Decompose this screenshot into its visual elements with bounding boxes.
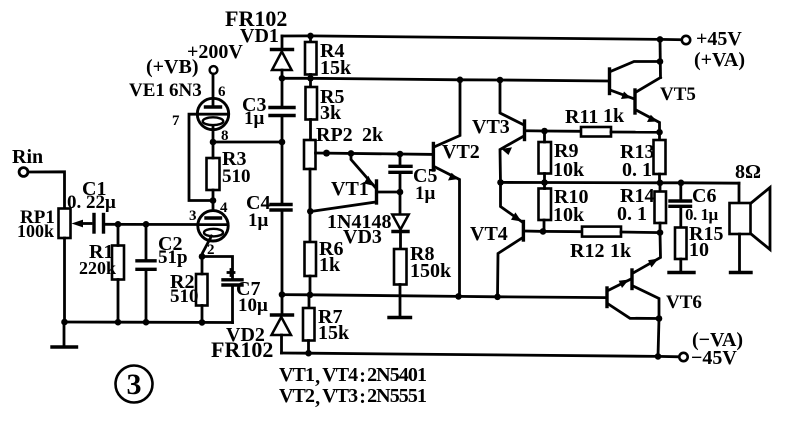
svg-text:VT3: VT3 bbox=[472, 116, 510, 138]
svg-text:3: 3 bbox=[189, 208, 197, 224]
node top rail / VT5 collector bbox=[657, 36, 664, 43]
svg-text:6N3: 6N3 bbox=[169, 80, 202, 101]
capacitor C3 1u bbox=[242, 78, 294, 142]
tube VE1 6N3 upper triode bbox=[129, 80, 229, 144]
diode VD2 FR102 bbox=[211, 295, 293, 362]
svg-text:R11: R11 bbox=[565, 106, 598, 128]
wiper arrow of RP1 bbox=[80, 222, 91, 225]
svg-text:0. 1: 0. 1 bbox=[617, 203, 647, 225]
potentiometer RP1 100k bbox=[17, 207, 91, 241]
wire cathode pin2 to C7 bbox=[199, 253, 233, 278]
resistor R14 0.1 bbox=[617, 183, 666, 236]
collector bbox=[312, 202, 376, 211]
resistor R11 1k bbox=[565, 105, 663, 137]
wire RP1 bottom to ground rail bbox=[63, 238, 66, 322]
VT5 collector column bbox=[659, 39, 662, 77]
node wiper tap bbox=[323, 150, 330, 157]
svg-text:VD1: VD1 bbox=[240, 25, 279, 47]
anode triangle bbox=[272, 52, 292, 71]
svg-text:1μ: 1μ bbox=[248, 210, 269, 231]
cathode ellipse bbox=[204, 229, 223, 237]
node R1 top bbox=[115, 221, 122, 228]
base bar bbox=[523, 121, 526, 140]
svg-text:R12: R12 bbox=[570, 240, 604, 262]
svg-text:220k: 220k bbox=[79, 258, 116, 278]
capacitor C2 51p bbox=[137, 224, 188, 322]
svg-text:VT2: VT2 bbox=[442, 141, 480, 163]
capacitor C5 1u bbox=[390, 154, 437, 204]
svg-text:(+VB): (+VB) bbox=[146, 56, 199, 78]
q1 base bar bbox=[605, 288, 608, 307]
capacitor C7 10u electrolytic bbox=[223, 270, 268, 323]
svg-text:2k: 2k bbox=[362, 124, 384, 146]
power terminal -45V bbox=[679, 329, 743, 369]
svg-text:6: 6 bbox=[218, 84, 226, 100]
svg-text:15k: 15k bbox=[320, 57, 352, 79]
resistor R7 15k bbox=[303, 295, 350, 353]
q1 emitter (arrow toward q2 base) bbox=[612, 91, 634, 99]
node R7 bottom bbox=[305, 350, 312, 357]
capacitor C4 1u bbox=[246, 142, 291, 295]
wire -45V bottom rail bbox=[282, 350, 680, 360]
resistor R3 510 bbox=[207, 142, 251, 211]
svg-text:1μ: 1μ bbox=[244, 108, 265, 129]
svg-text:1k: 1k bbox=[610, 240, 632, 262]
node pin2 / R2 / C7 bbox=[199, 253, 206, 260]
resistor R9 10k bbox=[539, 131, 586, 183]
base bar bbox=[432, 144, 435, 171]
resistor R10 10k bbox=[539, 183, 589, 232]
resistor R2 510 bbox=[170, 257, 208, 323]
node VT4 base / R10 bottom / R12 bbox=[540, 228, 547, 235]
svg-text:VD3: VD3 bbox=[343, 226, 382, 248]
wire RP2 wiper line to VT2 base bbox=[316, 150, 434, 158]
node VT6 collectors bbox=[656, 315, 663, 322]
svg-text:VT5: VT5 bbox=[660, 84, 696, 105]
base lead bbox=[526, 129, 545, 132]
svg-text:VT2,VT3:2N5551: VT2,VT3:2N5551 bbox=[279, 385, 426, 409]
resistor R13 0.1 bbox=[620, 132, 666, 183]
node R11 right / R13 top / VT5 emitter bbox=[656, 129, 663, 136]
anode triangle bbox=[272, 317, 292, 335]
node C5 top bbox=[397, 151, 404, 158]
svg-text:0. 1μ: 0. 1μ bbox=[685, 205, 719, 224]
node R9/R10 junction bbox=[541, 179, 548, 186]
anode bar (pin 6) bbox=[206, 105, 221, 108]
node VT6 collector / rail bbox=[655, 353, 662, 360]
svg-text:15k: 15k bbox=[318, 322, 350, 344]
node pin8 / R3 top bbox=[210, 139, 217, 146]
q1 collector bbox=[612, 62, 661, 72]
power terminal +200V (+VB) bbox=[146, 41, 243, 78]
base bar bbox=[522, 222, 525, 241]
q1 emitter (arrow toward q2 base) bbox=[609, 279, 631, 290]
svg-text:100k: 100k bbox=[17, 221, 54, 241]
node R9 top bbox=[541, 128, 548, 135]
wire VT3 base line y~131 bbox=[541, 128, 581, 135]
resistor R6 1k bbox=[305, 238, 344, 295]
node R13/R14 junction bbox=[657, 180, 664, 187]
transistor VT3 2N5551 bbox=[472, 80, 545, 182]
ground (speaker) bbox=[731, 271, 752, 274]
svg-text:1k: 1k bbox=[603, 105, 625, 127]
q2 collector bbox=[634, 287, 659, 319]
node VT4 collector bbox=[494, 294, 501, 301]
svg-text:VT4: VT4 bbox=[470, 223, 508, 245]
wire C1 to tube grid pin3 bbox=[105, 221, 198, 228]
node VT2 collector bbox=[457, 77, 464, 84]
wire output/emitter rail y~183 bbox=[497, 179, 739, 186]
figure number circled 3 bbox=[116, 366, 153, 403]
svg-text:10k: 10k bbox=[553, 204, 585, 226]
base lead bbox=[525, 230, 543, 233]
cathode bar bbox=[393, 230, 408, 233]
svg-text:VT6: VT6 bbox=[666, 292, 702, 313]
svg-text:10k: 10k bbox=[553, 159, 585, 181]
svg-text:(+VA): (+VA) bbox=[694, 49, 745, 71]
node VD1 anode / rail bbox=[279, 75, 286, 82]
svg-text:3k: 3k bbox=[320, 102, 342, 124]
svg-text:10: 10 bbox=[689, 239, 709, 261]
collector bbox=[498, 238, 523, 297]
emitter (arrow into bar, PNP) bbox=[501, 182, 523, 221]
transistor VT5 (darlington output, upper) bbox=[610, 39, 696, 132]
node top rail / R4 bbox=[307, 33, 314, 40]
svg-text:150k: 150k bbox=[410, 260, 452, 282]
resistor R12 1k bbox=[540, 227, 660, 262]
tube VE1 6N3 lower triode bbox=[189, 200, 228, 258]
svg-text:3: 3 bbox=[127, 368, 142, 401]
ground (input stage) bbox=[52, 322, 77, 347]
capacitor C1 0.22u bbox=[67, 178, 116, 232]
node R3 bottom / pin7 wire / pin4 bbox=[210, 197, 217, 204]
power terminal +45V bbox=[682, 28, 745, 71]
grid chord (pin 7) bbox=[197, 113, 228, 116]
ground (R8) bbox=[389, 316, 411, 319]
node VT3 collector bbox=[497, 77, 504, 84]
capacitor C6 0.1u bbox=[670, 183, 719, 228]
node VT3/VT4 emitters bbox=[497, 179, 504, 186]
svg-text:0. 1: 0. 1 bbox=[622, 159, 652, 181]
resistor R1 220k bbox=[79, 224, 124, 322]
q2 collector bbox=[637, 78, 661, 92]
cathode ellipse bbox=[203, 117, 224, 125]
node VT1 collector / R6 column bbox=[307, 208, 314, 215]
wire +VB to tube plate pin6 bbox=[212, 74, 215, 107]
node VT2 emitter bbox=[455, 293, 462, 300]
emitter (arrow into bar, PNP) bbox=[351, 153, 375, 187]
resistor R5 3k bbox=[306, 78, 345, 140]
diode VD1 FR102 bbox=[225, 6, 293, 78]
svg-text:51p: 51p bbox=[158, 247, 188, 268]
wire +VB rail (second rail y~79) bbox=[279, 75, 608, 83]
svg-text:4: 4 bbox=[220, 200, 228, 216]
svg-text:VT1: VT1 bbox=[331, 178, 369, 200]
wire Rin to RP1 bbox=[29, 172, 65, 209]
transistor VT2 2N5551 bbox=[433, 80, 479, 297]
wire grid pin7 feedback loop bbox=[189, 114, 213, 200]
svg-text:VE1: VE1 bbox=[129, 80, 165, 101]
wire +45V top rail bbox=[282, 33, 682, 43]
q2 emitter (arrow down-right) bbox=[637, 111, 660, 133]
svg-text:RP2: RP2 bbox=[316, 124, 353, 146]
diode VD3 1N4148 bbox=[327, 192, 409, 249]
svg-text:10μ: 10μ bbox=[238, 295, 268, 316]
q2 base bar bbox=[630, 270, 633, 289]
input terminal Rin bbox=[12, 146, 43, 176]
wire VT6 to -45V rail bbox=[658, 319, 659, 357]
svg-text:C6: C6 bbox=[692, 185, 716, 207]
anode bar (pin 4) bbox=[206, 216, 221, 219]
resistor R15 10 bbox=[675, 223, 723, 271]
q2 emitter (arrow up toward output) bbox=[634, 233, 661, 273]
wire input ground rail bbox=[61, 319, 232, 326]
svg-text:1μ: 1μ bbox=[415, 183, 436, 204]
node C2 top bbox=[143, 221, 150, 228]
wire VT2-emitter/VT4-collector rail y~296 to VT6 base bbox=[279, 291, 606, 300]
svg-text:+45V: +45V bbox=[696, 28, 742, 50]
svg-text:Rin: Rin bbox=[12, 146, 43, 168]
emitter (arrow out, NPN) bbox=[500, 137, 523, 183]
q2 base bar bbox=[633, 90, 636, 113]
transistor VT4 2N5401 bbox=[470, 182, 543, 296]
transistor VT1 2N5401 bbox=[307, 153, 403, 214]
node RP1 bottom bbox=[61, 319, 68, 326]
node C2 bottom bbox=[143, 319, 150, 326]
svg-text:8Ω: 8Ω bbox=[735, 161, 761, 183]
node C6 top bbox=[678, 180, 685, 187]
node VT1 base / C5 / VD3 bbox=[397, 189, 404, 196]
node R4 bottom / R5 top bbox=[307, 75, 314, 82]
collector bbox=[500, 80, 523, 125]
base bar bbox=[375, 181, 378, 203]
svg-text:0. 22μ: 0. 22μ bbox=[67, 192, 116, 213]
node R6 bottom / R7 top bbox=[307, 292, 314, 299]
svg-text:(−VA): (−VA) bbox=[692, 329, 743, 351]
node R1 bottom bbox=[115, 319, 122, 326]
anode triangle (pointing down) bbox=[392, 215, 408, 230]
cathode lead to pin 2 bbox=[203, 236, 212, 257]
svg-text:510: 510 bbox=[170, 286, 199, 307]
resistor R8 150k bbox=[394, 243, 452, 316]
node R14 bottom / R12 right / VT6 emitter bbox=[657, 229, 664, 236]
wire pin8 to mid column bbox=[210, 139, 286, 146]
speaker 8 ohm bbox=[730, 161, 771, 271]
svg-text:2: 2 bbox=[207, 242, 215, 258]
node R2 bottom bbox=[199, 319, 206, 326]
potentiometer RP2 2k bbox=[304, 124, 384, 242]
grid chord (pin 3) bbox=[198, 223, 228, 226]
ground (R15 / zobel) bbox=[669, 271, 694, 274]
base lead bbox=[378, 191, 400, 194]
node mid column / pin8 line bbox=[279, 139, 286, 146]
cathode bar bbox=[272, 48, 293, 51]
q1 base bar bbox=[608, 69, 611, 94]
svg-text:1k: 1k bbox=[319, 254, 341, 276]
collector bbox=[435, 80, 460, 147]
svg-text:7: 7 bbox=[172, 113, 180, 129]
node VT5 q1 collector bbox=[657, 58, 664, 65]
node mid column / rail bbox=[279, 291, 286, 298]
resistor R4 15k bbox=[305, 36, 352, 79]
node VT1 emitter bbox=[348, 150, 355, 157]
svg-text:510: 510 bbox=[222, 166, 251, 187]
transistor VT6 (darlington output, lower) bbox=[607, 233, 702, 357]
svg-text:FR102: FR102 bbox=[211, 337, 273, 362]
emitter (arrow out, NPN) bbox=[435, 167, 460, 296]
q1 collector bbox=[609, 305, 659, 319]
wire cathode pin8 down to junction bbox=[212, 126, 215, 142]
cathode bar bbox=[272, 313, 293, 316]
